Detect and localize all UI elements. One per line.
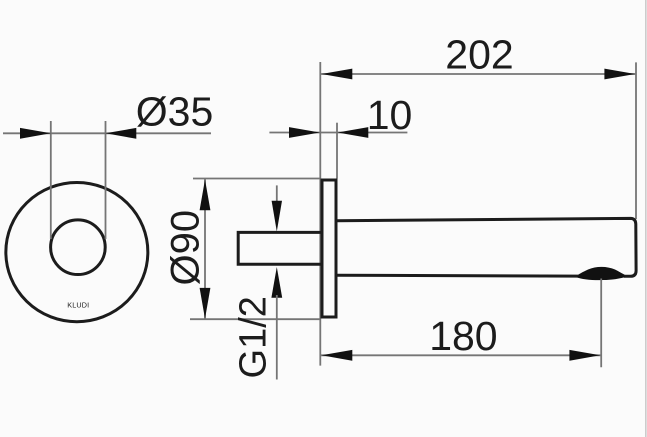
arrowhead 202 left (points left): [322, 69, 353, 80]
arrowhead D90 bottom (points down): [200, 288, 211, 319]
G1/2 leader line lower segment: [276, 295, 278, 380]
G1/2 supply pipe (behind wall): [238, 232, 322, 264]
arrowhead 10 right (points left, outside): [338, 127, 369, 138]
front view inner circle (spout D35): [51, 220, 106, 275]
svg-text:10: 10: [367, 92, 413, 138]
G1/2 leader line upper segment: [276, 185, 278, 205]
extension line right of D35: [105, 121, 107, 239]
svg-text:Ø35: Ø35: [136, 89, 214, 135]
front view outer circle (escutcheon D90): [6, 183, 148, 322]
extension line right of 202 (spout tip): [635, 62, 637, 219]
arrowhead G1/2 bottom (points up to pipe): [271, 267, 282, 298]
svg-text:202: 202: [445, 31, 513, 77]
arrowhead 180 right (points right): [569, 350, 600, 361]
spout body (side view): [336, 218, 636, 276]
arrowhead 180 left (points left): [322, 350, 353, 361]
extension line right of 10 (plate front): [336, 123, 338, 179]
dimension line D35: [3, 132, 211, 134]
extension line top of D90 (plate): [193, 178, 321, 180]
wall extension line (left datum of 202/10/180): [319, 62, 321, 366]
arrowhead D35 left (points right): [20, 128, 51, 139]
svg-text:G1/2: G1/2: [233, 296, 275, 378]
dimension line 202: [320, 73, 636, 75]
dimension line 10: [269, 132, 407, 134]
page border (faint right edge): [645, 0, 647, 437]
arrowhead 202 right (points right): [604, 69, 635, 80]
svg-text:Ø90: Ø90: [164, 210, 208, 286]
arrowhead 10 left (points right, outside): [289, 127, 320, 138]
arrowhead D90 top (points up): [200, 180, 211, 211]
aerator outlet (filled crescent under spout): [577, 267, 626, 280]
extension line right of 180 (outlet axis): [600, 279, 602, 368]
extension line bottom of D90 (plate): [190, 318, 321, 320]
dimension line 180: [320, 354, 600, 356]
extension line left of D35: [50, 121, 52, 239]
dimension line D90 (vertical): [204, 179, 206, 319]
svg-text:180: 180: [429, 313, 497, 359]
arrowhead G1/2 top (points down to pipe): [272, 201, 282, 232]
arrowhead D35 right (points left): [106, 128, 137, 139]
wall plate (side view, D90 x 10): [322, 180, 336, 317]
svg-text:KLUDI: KLUDI: [67, 301, 89, 310]
